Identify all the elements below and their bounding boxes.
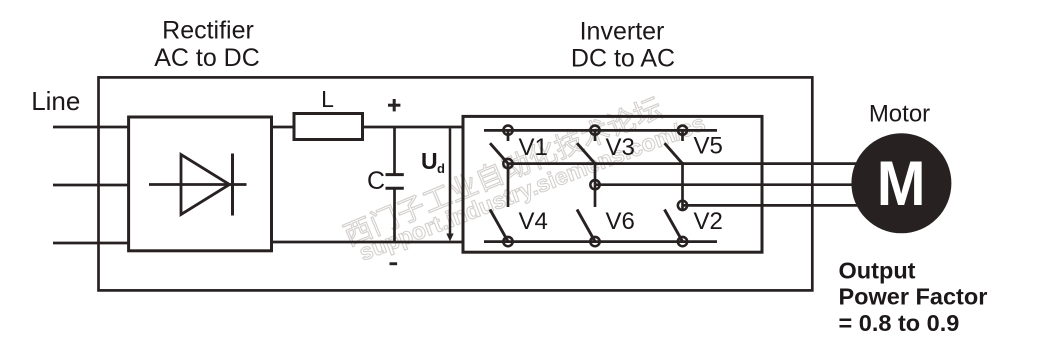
switch V2 <box>665 205 688 246</box>
output wire phase W <box>683 204 861 207</box>
diode anode line <box>149 183 247 186</box>
capacitor plates <box>386 173 404 176</box>
svg-text:C: C <box>367 167 385 195</box>
switch V3 <box>577 126 600 190</box>
svg-text:AC to DC: AC to DC <box>154 44 260 72</box>
DC- bus wire <box>272 241 464 244</box>
svg-text:V3: V3 <box>606 134 635 161</box>
svg-text:M: M <box>877 148 926 218</box>
svg-text:Rectifier: Rectifier <box>162 17 254 45</box>
inverter DC+ rail <box>484 129 717 132</box>
diode triangle <box>181 155 230 215</box>
output wire phase V <box>595 183 856 186</box>
output wire phase U <box>508 162 858 165</box>
switch V6 <box>577 185 600 247</box>
svg-text:Power Factor: Power Factor <box>839 284 988 310</box>
Ud measurement arrow <box>449 128 452 236</box>
capacitor C lead top <box>393 127 396 175</box>
wire rectifier to L <box>272 126 295 129</box>
wire phase 3 <box>53 242 129 245</box>
svg-text:DC to AC: DC to AC <box>571 45 675 73</box>
svg-text:Output: Output <box>839 258 916 284</box>
capacitor C lead bottom <box>393 188 396 242</box>
svg-text:Line: Line <box>31 86 80 116</box>
watermark CJK line <box>339 92 708 266</box>
switch V1 <box>490 126 513 169</box>
inductor L <box>294 114 363 140</box>
svg-text:U: U <box>421 148 438 174</box>
svg-text:V4: V4 <box>519 208 548 235</box>
wire phase 2 <box>53 184 129 187</box>
wire phase 1 <box>53 126 129 129</box>
svg-text:L: L <box>321 86 334 112</box>
svg-text:V2: V2 <box>694 208 723 235</box>
diode cathode bar <box>231 154 234 216</box>
svg-text:= 0.8 to 0.9: = 0.8 to 0.9 <box>839 310 960 336</box>
svg-text:V5: V5 <box>694 133 723 160</box>
svg-text:d: d <box>437 161 445 176</box>
inverter DC- rail <box>484 240 717 243</box>
svg-text:Inverter: Inverter <box>580 18 665 46</box>
outer enclosure box <box>99 77 813 290</box>
inverter box <box>463 116 762 252</box>
svg-text:V6: V6 <box>606 208 635 235</box>
wire L to inverter (DC+ bus) <box>363 126 464 129</box>
switch V5 <box>665 126 688 211</box>
label + <box>388 99 400 111</box>
svg-text:V1: V1 <box>519 134 548 161</box>
switch V4 <box>490 164 513 247</box>
motor M circle <box>851 133 951 233</box>
rectifier box <box>129 117 272 251</box>
svg-text:Motor: Motor <box>869 101 930 128</box>
label minus <box>390 262 398 265</box>
